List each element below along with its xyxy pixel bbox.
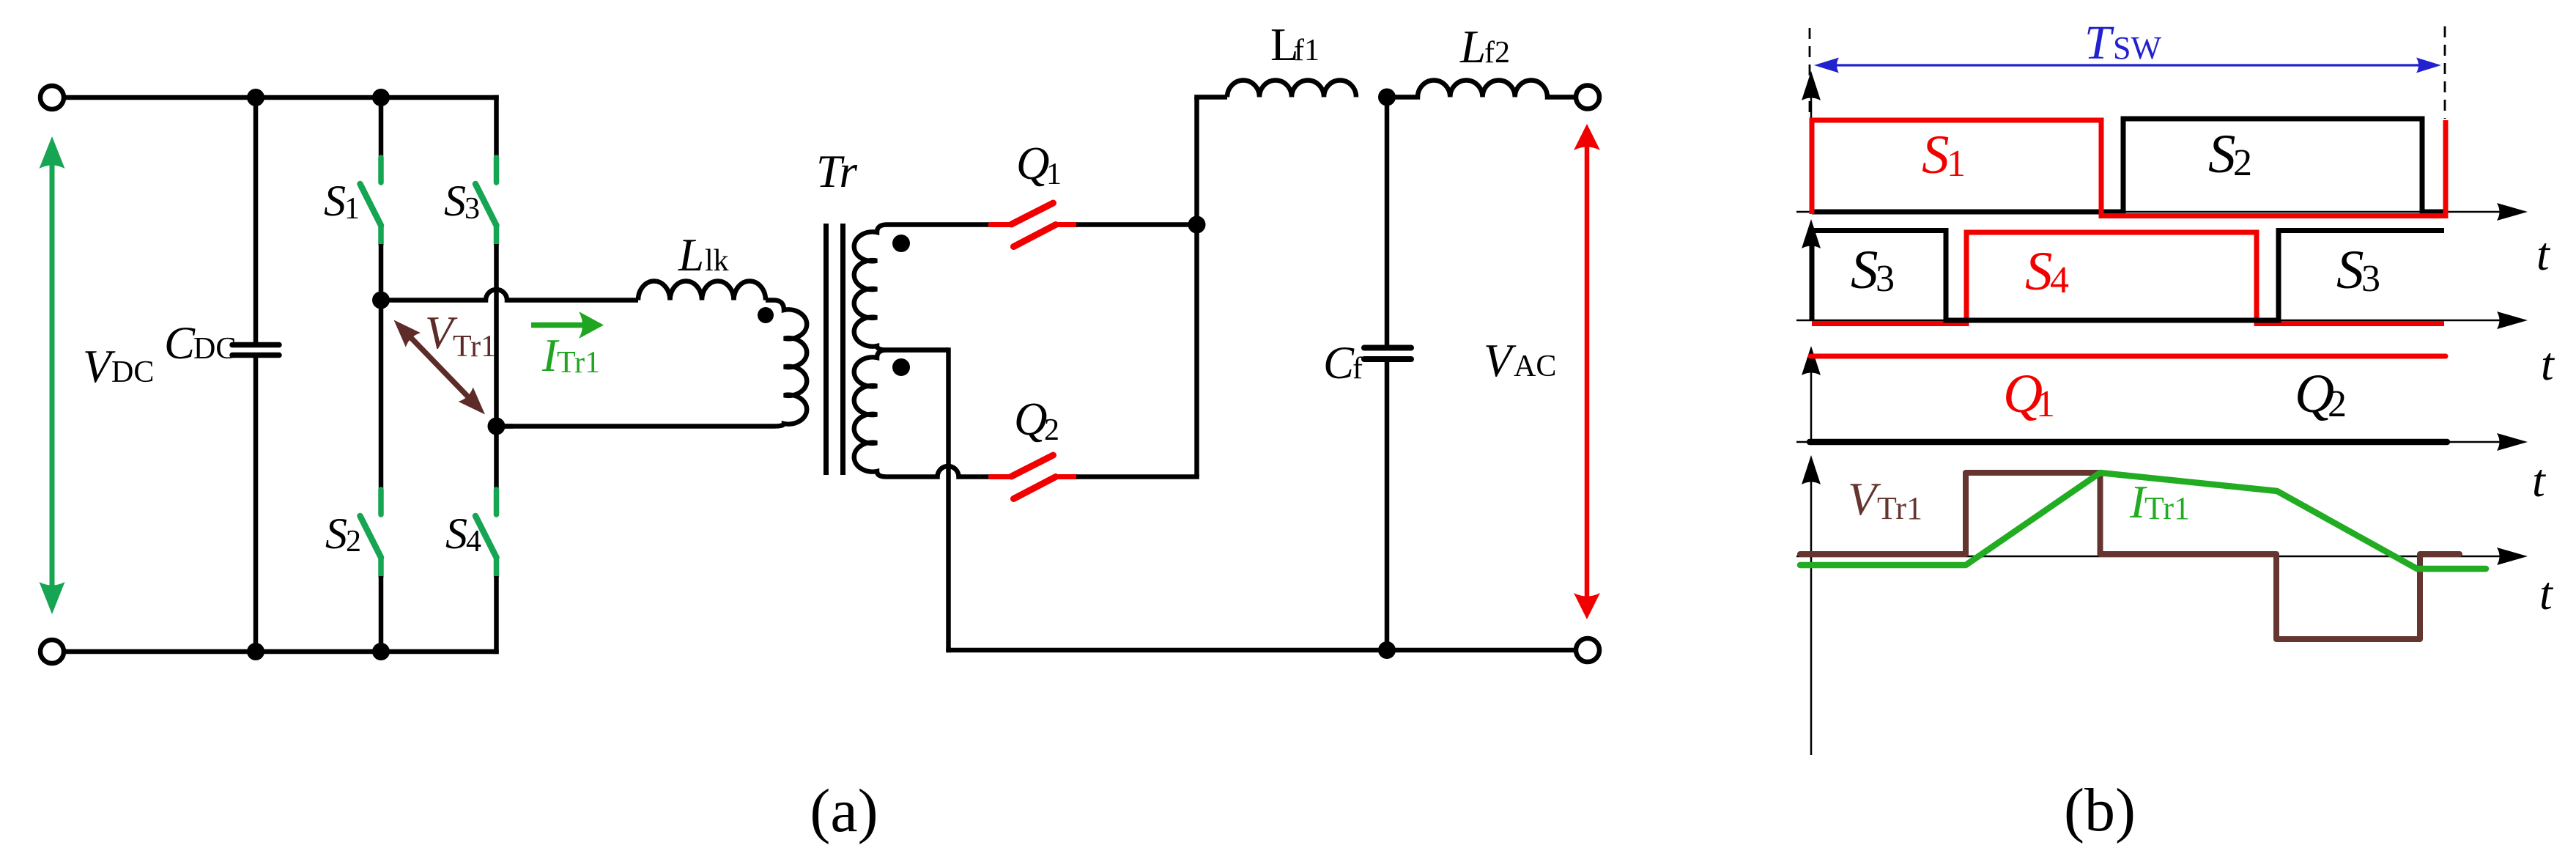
svg-text:S: S [324, 177, 346, 225]
svg-text:Q: Q [1014, 394, 1048, 445]
label CDC [164, 317, 236, 369]
wire S2 lower [379, 576, 384, 652]
svg-text:2: 2 [2233, 142, 2252, 184]
label S3 (first pulse) [1851, 240, 1895, 301]
wire secondary center tap down [946, 347, 951, 652]
transformer Tr primary winding [499, 301, 807, 427]
svg-text:t: t [2532, 454, 2547, 506]
svg-text:1: 1 [2036, 383, 2055, 425]
trace S4 (red) [1812, 232, 2444, 324]
svg-text:3: 3 [465, 192, 480, 226]
node leg1 bottom rail [372, 643, 390, 660]
svg-text:t: t [2536, 228, 2551, 280]
svg-text:(b): (b) [2064, 776, 2136, 844]
label S4 [445, 509, 481, 558]
dashed period boundary right [2444, 26, 2446, 119]
label VDC [83, 341, 154, 392]
arrow VTr1 (voltage across primary) [394, 320, 486, 415]
trace S1 (red) [1812, 120, 2446, 216]
svg-text:S: S [1922, 125, 1950, 185]
transformer Tr secondary winding 2 [854, 350, 991, 477]
input terminal top-left [40, 86, 64, 109]
svg-text:SW: SW [2113, 30, 2161, 66]
axis t4 negative extension [1810, 556, 1813, 755]
svg-text:Q: Q [1016, 138, 1050, 189]
label S1 (red) [1922, 125, 1966, 185]
label Tr [816, 146, 858, 197]
label VTr1 (brown) [1848, 473, 1922, 526]
label ITr1 [541, 330, 600, 381]
svg-text:S: S [444, 177, 466, 225]
input terminal bottom-left [40, 640, 64, 663]
svg-text:f2: f2 [1484, 36, 1510, 70]
node D (filter midpoint) [1378, 89, 1396, 106]
svg-text:(a): (a) [810, 777, 878, 845]
transformer phase dot secondary 1 [892, 235, 910, 252]
wire AC bottom rail [946, 648, 1576, 653]
svg-text:L: L [678, 229, 704, 281]
svg-text:S: S [325, 509, 347, 558]
trace Q2 (black, on axis) [1810, 439, 2447, 446]
axis t4 (VTr1,ITr1) [1796, 455, 2528, 565]
transformer phase dot primary [758, 307, 774, 323]
label Q2 [2295, 364, 2347, 425]
label S1 [324, 177, 360, 226]
svg-text:Tr1: Tr1 [2144, 490, 2190, 526]
label Lf2 [1459, 21, 1510, 73]
axis t2 (S3,S4) [1796, 219, 2528, 329]
label S2 [2208, 124, 2252, 185]
label Q1 (red) [2003, 364, 2055, 425]
arrow ITr1 (primary current) [531, 311, 604, 339]
switch S2 [360, 490, 382, 576]
node Cf bottom [1378, 641, 1396, 659]
label VAC [1484, 335, 1556, 386]
label t axis3 [2532, 454, 2547, 506]
inductor Llk [638, 281, 766, 301]
arrow TSW [1814, 58, 2441, 73]
label t axis1 [2536, 228, 2551, 280]
node leg1 top rail [372, 89, 390, 106]
label S4 (red) [2025, 241, 2069, 302]
svg-text:L: L [1459, 21, 1486, 73]
node CDC top rail [247, 89, 264, 106]
label Llk [678, 229, 729, 281]
svg-text:4: 4 [466, 525, 481, 558]
svg-text:T: T [2084, 16, 2114, 70]
wire leg S1 upper [379, 97, 384, 158]
svg-text:t: t [2539, 567, 2554, 619]
svg-text:AC: AC [1514, 350, 1556, 383]
label (b) [2064, 776, 2136, 844]
svg-text:1: 1 [1947, 143, 1966, 185]
switch S1 [360, 158, 382, 244]
label Q2 [1014, 394, 1059, 447]
wire leg S3 upper [494, 95, 499, 158]
label t axis4 [2539, 567, 2554, 619]
trace S2 (black) [1812, 119, 2446, 212]
label TSW [2084, 16, 2161, 70]
wire Q2 to output leg [1076, 474, 1199, 479]
voltage arrow VAC [1574, 124, 1600, 619]
label Q1 [1016, 138, 1062, 191]
output terminal top [1576, 86, 1599, 109]
axis t3 (Q1,Q2) [1796, 346, 2528, 451]
wire node C corner to Lf1 [1194, 95, 1227, 100]
node B (S3-S4 midpoint) [488, 418, 506, 435]
svg-text:C: C [1323, 337, 1355, 388]
wire output leg vertical [1194, 97, 1199, 477]
svg-text:DC: DC [111, 355, 154, 389]
svg-text:DC: DC [193, 332, 236, 366]
inductor Lf1 [1227, 81, 1356, 97]
svg-text:lk: lk [705, 244, 729, 278]
label Cf [1323, 337, 1363, 388]
label S2 [325, 509, 361, 558]
svg-text:f1: f1 [1294, 34, 1320, 67]
svg-text:4: 4 [2050, 259, 2069, 301]
switch S3 [475, 158, 497, 244]
svg-text:2: 2 [346, 525, 361, 558]
svg-text:S: S [445, 509, 467, 558]
wire Q1 to node C [1076, 222, 1197, 227]
waveform VTr1 (brown) [1800, 473, 2460, 639]
capacitor CDC [232, 97, 279, 652]
switch Q2 [991, 455, 1076, 499]
wire midpoint A to S2 [379, 301, 384, 490]
wire node A to Llk (hop over S3-S4 leg) [381, 290, 638, 301]
wire bottom DC rail [64, 649, 499, 655]
label ITr1 (green) [2129, 476, 2190, 528]
wire S3 to midpoint B [494, 244, 499, 427]
svg-text:S: S [1851, 240, 1879, 301]
node A (S1-S2 midpoint) [372, 292, 390, 309]
svg-text:2: 2 [1044, 413, 1059, 447]
label Lf1 [1270, 19, 1320, 70]
svg-text:S: S [2336, 240, 2364, 301]
label VTr1 [425, 307, 496, 364]
waveform ITr1 (green) [1800, 473, 2486, 569]
switch S4 [475, 490, 497, 576]
svg-text:1: 1 [344, 192, 360, 226]
label S3 (second pulse) [2336, 240, 2380, 301]
output terminal bottom [1576, 638, 1599, 662]
trace Q1 (red, on) [1810, 354, 2446, 359]
voltage arrow VDC [40, 136, 65, 614]
wire midpoint B stub [495, 424, 514, 429]
wire secondary1 to Q1 [991, 222, 992, 227]
svg-text:3: 3 [1876, 258, 1895, 300]
svg-text:Tr1: Tr1 [453, 330, 496, 364]
switch Q1 [991, 203, 1076, 247]
svg-text:C: C [164, 317, 196, 369]
svg-text:Tr: Tr [816, 146, 858, 197]
wire S4 lower [494, 576, 499, 654]
node CDC bottom rail [247, 643, 264, 660]
dashed period boundary left [1809, 28, 1811, 119]
svg-text:3: 3 [2361, 258, 2380, 300]
label S3 [444, 177, 480, 226]
svg-text:1: 1 [1046, 158, 1062, 191]
transformer Tr secondary winding 1 [854, 225, 991, 350]
inductor Lf2 [1387, 80, 1576, 97]
svg-text:t: t [2541, 338, 2555, 390]
svg-text:2: 2 [2328, 383, 2347, 425]
svg-text:Tr1: Tr1 [557, 346, 600, 380]
wire S1 to midpoint A [379, 244, 384, 301]
svg-text:S: S [2208, 124, 2236, 185]
trace S3 (black) [1812, 231, 2444, 321]
svg-text:V: V [1484, 335, 1517, 386]
wire top DC rail [64, 95, 499, 100]
capacitor Cf [1364, 97, 1411, 651]
svg-text:Tr1: Tr1 [1877, 490, 1922, 526]
label t axis2 [2541, 338, 2555, 390]
wire midpoint B to S4 [494, 427, 499, 490]
svg-text:S: S [2025, 241, 2053, 302]
svg-text:f: f [1352, 352, 1363, 386]
transformer Tr core [826, 224, 843, 475]
label (a) [810, 777, 878, 845]
transformer phase dot secondary 2 [892, 358, 910, 376]
node C (Q1 junction) [1188, 216, 1206, 234]
axis t1 (S1,S2) [1796, 71, 2528, 221]
